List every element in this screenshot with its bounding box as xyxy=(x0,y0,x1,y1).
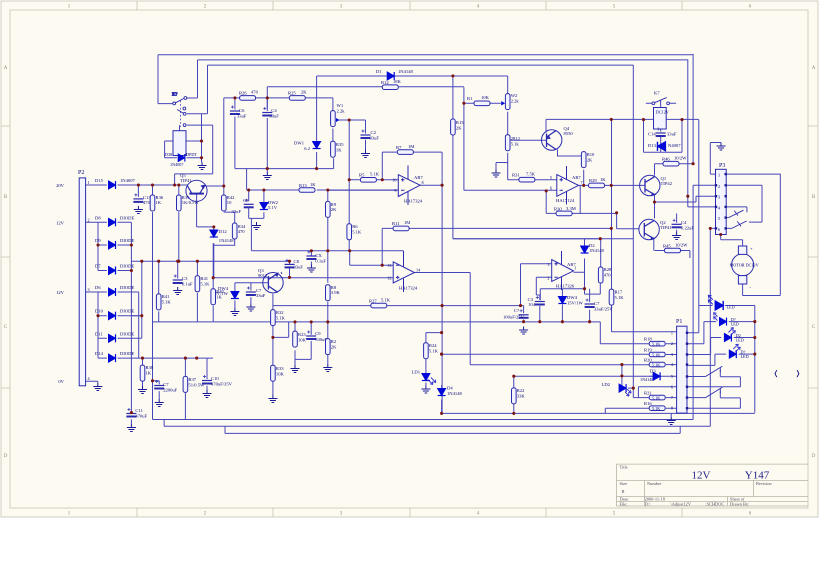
ground R23 xyxy=(291,365,300,373)
ground P3 top xyxy=(717,143,726,151)
wire D9 branch xyxy=(98,222,131,245)
svg-text:Drawn By:: Drawn By: xyxy=(730,501,749,506)
wire R32 bottom link xyxy=(273,322,289,395)
ground C5 xyxy=(252,222,261,230)
svg-text:HA17324: HA17324 xyxy=(404,199,423,204)
svg-text:1K: 1K xyxy=(156,200,162,205)
svg-text:LED: LED xyxy=(731,321,739,326)
wire fb row 288.8 xyxy=(540,289,589,302)
svg-text:Revision: Revision xyxy=(756,481,772,486)
svg-text:HA17324: HA17324 xyxy=(399,286,418,291)
svg-text:LD2: LD2 xyxy=(602,382,611,387)
svg-text:33uF: 33uF xyxy=(370,136,380,141)
svg-text:5: 5 xyxy=(550,175,552,180)
wire D14 row xyxy=(98,358,213,379)
svg-text:R38: R38 xyxy=(146,365,154,370)
svg-text:5.1K: 5.1K xyxy=(200,282,210,287)
capacitor C12 100uF xyxy=(519,309,529,318)
wire Q4 emitter up xyxy=(546,119,699,132)
svg-text:DPDT: DPDT xyxy=(186,152,197,157)
relay coil K7b DC12V xyxy=(654,108,667,130)
svg-text:R11: R11 xyxy=(392,221,400,226)
svg-text:C7: C7 xyxy=(163,382,169,387)
svg-text:W2: W2 xyxy=(511,93,518,98)
svg-text:P2: P2 xyxy=(78,170,84,176)
wire R24 branch xyxy=(426,333,442,386)
ground C13 xyxy=(134,206,143,214)
svg-text:C10: C10 xyxy=(211,376,219,381)
svg-text:❭: ❭ xyxy=(795,370,801,378)
wire x699 drop xyxy=(698,120,700,306)
svg-text:LED: LED xyxy=(741,354,749,359)
svg-text:DIODE: DIODE xyxy=(120,264,134,269)
diode D8 xyxy=(109,218,116,226)
svg-text:2K: 2K xyxy=(587,158,593,163)
transistor Q1 TIP42 xyxy=(640,175,660,195)
wire R34 bottom xyxy=(214,239,235,278)
svg-text:\Adjust12V: \Adjust12V xyxy=(671,501,692,506)
svg-text:D1: D1 xyxy=(376,69,382,74)
wire AR2 fb xyxy=(546,185,580,213)
wire box bottom rail xyxy=(235,158,334,168)
svg-text:33uF/25V: 33uF/25V xyxy=(594,307,613,312)
capacitor C3b 104 xyxy=(535,296,545,305)
resistor R36b 1K xyxy=(150,195,155,211)
wire AR1 out col xyxy=(420,152,442,413)
switch K7a xyxy=(172,92,187,128)
transistor Q4 8550 xyxy=(542,130,562,150)
svg-text:470uF: 470uF xyxy=(135,414,147,419)
svg-text:DW4: DW4 xyxy=(567,295,578,300)
ground C12 xyxy=(519,327,528,335)
wire Q3 base rail xyxy=(235,283,269,308)
wire P3 bottom to motor xyxy=(721,235,743,247)
wire bottom rail 433 xyxy=(225,426,680,433)
capacitor C7b xyxy=(585,299,595,308)
transistor Q2 TIP41 xyxy=(639,219,659,239)
svg-text:5.1K: 5.1K xyxy=(615,295,625,300)
svg-text:13: 13 xyxy=(387,263,391,268)
svg-text:2.2k: 2.2k xyxy=(337,109,346,114)
svg-text:D9: D9 xyxy=(95,238,101,243)
wire LED3 row xyxy=(687,338,755,355)
wire pin12 rail xyxy=(213,277,393,279)
svg-text:2K: 2K xyxy=(301,90,307,95)
wire Q3 emitter rail xyxy=(281,261,290,277)
svg-text:2K: 2K xyxy=(331,345,337,350)
wire P3 pin4 row xyxy=(726,207,747,212)
svg-text:2: 2 xyxy=(671,341,673,346)
svg-text:5.1K: 5.1K xyxy=(276,316,286,321)
svg-text:1: 1 xyxy=(671,330,673,335)
svg-text:0.22uF: 0.22uF xyxy=(681,226,694,231)
resistor R41a xyxy=(156,294,161,310)
svg-text:1N4148: 1N4148 xyxy=(589,248,605,253)
svg-text:33uF: 33uF xyxy=(256,293,266,298)
capacitor C7c 2200uF xyxy=(154,380,164,389)
diode D14 xyxy=(109,354,116,362)
wire Q5 base drop xyxy=(197,194,214,231)
LED D17 xyxy=(714,313,727,326)
wire R23 stub xyxy=(295,322,311,365)
svg-text:R22: R22 xyxy=(517,388,525,393)
svg-text:Number: Number xyxy=(647,481,662,486)
svg-text:CX: CX xyxy=(315,253,322,258)
svg-text:18K: 18K xyxy=(393,79,402,84)
svg-text:A: A xyxy=(812,66,816,71)
switch P3 sw2 xyxy=(732,221,747,228)
svg-text:1: 1 xyxy=(718,173,720,178)
resistor R21 xyxy=(649,395,665,400)
wire R15 col xyxy=(453,76,601,239)
resistor R1 10K xyxy=(474,101,490,106)
svg-text:33uF: 33uF xyxy=(667,132,677,137)
wire C4 branch xyxy=(266,98,268,169)
motor M DC12V xyxy=(732,246,754,284)
diode D2 xyxy=(581,246,589,253)
wire P3 pin5 row xyxy=(726,217,728,219)
wire top rail 3 xyxy=(208,65,634,239)
wire LED4 row xyxy=(687,354,755,365)
svg-text:3.9K: 3.9K xyxy=(331,290,341,295)
svg-text:R26: R26 xyxy=(239,91,247,96)
resistor R18 xyxy=(649,341,665,346)
svg-text:20V: 20V xyxy=(56,183,65,188)
svg-text:C2: C2 xyxy=(371,130,377,135)
wire K7 pole1 xyxy=(158,98,198,104)
ground R33 xyxy=(268,395,277,403)
connector P1 xyxy=(677,326,687,413)
wire R28 top xyxy=(600,239,602,267)
relay K coil xyxy=(173,131,186,156)
wire R1 row xyxy=(464,102,501,104)
wire P1 gnd stub xyxy=(670,413,672,417)
svg-text:LED: LED xyxy=(727,305,735,310)
wire rail 239 xyxy=(453,238,633,240)
svg-text:R10: R10 xyxy=(587,152,595,157)
svg-text:5.1K: 5.1K xyxy=(381,298,391,303)
wire AR3 in12 xyxy=(392,276,394,278)
svg-text:C14: C14 xyxy=(648,132,656,137)
svg-text:12V: 12V xyxy=(56,220,65,225)
svg-text:3: 3 xyxy=(671,352,673,357)
capacitor C14 xyxy=(656,128,666,137)
wire cluster bottoms xyxy=(524,305,590,322)
resistor R19 xyxy=(649,352,665,357)
svg-text:A: A xyxy=(4,66,8,71)
wire C4b stub xyxy=(676,214,678,233)
resistor R20 xyxy=(649,362,665,367)
svg-text:R7: R7 xyxy=(396,145,402,150)
svg-text:12: 12 xyxy=(387,275,391,280)
svg-text:R6: R6 xyxy=(352,224,358,229)
title block xyxy=(616,464,808,506)
wire AR3 in13 xyxy=(350,251,394,265)
svg-text:2812: 2812 xyxy=(511,136,521,141)
svg-text:D: D xyxy=(812,454,816,459)
wire R37 bottom xyxy=(184,393,186,420)
wire R17 col xyxy=(611,305,613,332)
switch P1 sw2 xyxy=(706,387,723,397)
svg-text:D13: D13 xyxy=(648,143,657,148)
svg-text:R46: R46 xyxy=(662,157,670,162)
svg-text:10K: 10K xyxy=(481,95,490,100)
wire P2 pin3 rail xyxy=(85,292,139,358)
wire switch K7b xyxy=(646,102,676,104)
resistor R22 33K xyxy=(512,388,517,404)
resistor R25 2K xyxy=(289,96,305,101)
svg-text:1N4007: 1N4007 xyxy=(170,162,184,167)
wire P3 pin1 row xyxy=(710,143,780,175)
svg-text:1N4148: 1N4148 xyxy=(447,391,463,396)
wire P1 sw2 xyxy=(687,391,740,408)
ground P2 pin4 xyxy=(93,383,102,391)
svg-text:R32: R32 xyxy=(276,310,284,315)
wire C3a stub xyxy=(177,261,179,278)
LED D19 xyxy=(729,344,740,358)
svg-text:TIP41: TIP41 xyxy=(180,178,192,183)
resistor R7 1M xyxy=(397,150,413,155)
svg-text:D: D xyxy=(4,454,8,459)
wire C6 branch xyxy=(234,98,236,169)
svg-text:R23: R23 xyxy=(298,332,306,337)
svg-text:6: 6 xyxy=(671,384,673,389)
wire AR3 out xyxy=(414,273,649,365)
capacitor C3a 0.1uF xyxy=(173,275,183,284)
resistor R9 xyxy=(326,201,331,217)
wire rail 413 xyxy=(442,400,755,414)
svg-text:C6: C6 xyxy=(239,108,245,113)
svg-text:3.3M: 3.3M xyxy=(566,206,576,211)
capacitor C10 xyxy=(202,375,212,384)
svg-text:1N4148: 1N4148 xyxy=(219,238,235,243)
capacitor C6 xyxy=(230,106,240,115)
switch K7b xyxy=(652,98,669,106)
svg-text:1K: 1K xyxy=(216,295,222,300)
svg-text:R31: R31 xyxy=(512,173,520,178)
svg-text:0.1uF: 0.1uF xyxy=(315,259,326,264)
wire bottom rail 419 xyxy=(153,419,694,421)
svg-text:8: 8 xyxy=(422,180,424,185)
svg-text:D15: D15 xyxy=(95,178,104,183)
svg-text:D38: D38 xyxy=(165,152,172,157)
svg-text:5.1K: 5.1K xyxy=(652,363,660,368)
wire supply rail mid xyxy=(131,261,289,316)
svg-text:3: 3 xyxy=(547,262,549,267)
capacitor CX xyxy=(306,251,316,260)
svg-text:8: 8 xyxy=(671,406,673,411)
op-amp AR2 xyxy=(557,166,579,205)
svg-text:R28: R28 xyxy=(604,267,612,272)
svg-text:D:\: D:\ xyxy=(645,501,651,506)
resistor R40 xyxy=(211,289,216,305)
wire AR4 out xyxy=(574,239,601,294)
svg-text:R41: R41 xyxy=(200,276,208,281)
svg-text:C4: C4 xyxy=(681,220,687,225)
wire relay drop xyxy=(179,125,181,131)
svg-text:5.1K: 5.1K xyxy=(352,230,362,235)
svg-text:2: 2 xyxy=(718,184,720,189)
resistor R16 xyxy=(649,406,665,411)
ground DW4a xyxy=(230,308,239,316)
wire LED2 row xyxy=(687,322,755,344)
wire relay right to ground xyxy=(165,141,202,158)
ground C2 xyxy=(361,150,370,158)
svg-text:DIODE: DIODE xyxy=(120,285,134,290)
wire D1 row xyxy=(317,76,508,141)
svg-text:5.1K: 5.1K xyxy=(370,172,380,177)
svg-text:R35: R35 xyxy=(336,142,344,147)
diode D7 xyxy=(109,267,116,275)
wire R2 stub xyxy=(327,322,329,364)
svg-text:Size: Size xyxy=(620,481,628,486)
diode D10 xyxy=(109,312,116,320)
svg-text:2K: 2K xyxy=(331,207,337,212)
svg-text:R5: R5 xyxy=(359,173,365,178)
diode D1 xyxy=(387,72,394,80)
svg-text:10/2W: 10/2W xyxy=(674,156,687,161)
wire D4 col xyxy=(442,354,650,391)
svg-text:1K: 1K xyxy=(600,177,606,182)
svg-text:D10: D10 xyxy=(95,309,104,314)
svg-text:5.1K: 5.1K xyxy=(652,342,660,347)
svg-text:2: 2 xyxy=(547,276,549,281)
svg-text:470uF/35V: 470uF/35V xyxy=(211,382,233,387)
svg-text:D7: D7 xyxy=(95,264,101,269)
svg-text:1K: 1K xyxy=(146,371,152,376)
resistor R26 470 xyxy=(240,96,256,101)
resistor R8 3.9K xyxy=(326,285,331,301)
svg-text:DIODE: DIODE xyxy=(120,331,134,336)
svg-text:R33: R33 xyxy=(276,366,284,371)
wire R39 stub xyxy=(178,185,180,261)
wire ground rail 321.9 xyxy=(153,322,601,344)
ground P1 xyxy=(667,417,676,425)
wire coil2 leads xyxy=(660,106,662,153)
svg-text:8550: 8550 xyxy=(564,131,574,136)
capacitor C7a xyxy=(246,287,256,296)
svg-text:TIP42: TIP42 xyxy=(661,181,673,186)
svg-text:5.1K: 5.1K xyxy=(652,396,660,401)
resistor R13 xyxy=(299,188,315,193)
svg-text:R2: R2 xyxy=(331,339,337,344)
svg-text:33uF: 33uF xyxy=(269,114,279,119)
svg-text:R24: R24 xyxy=(429,343,437,348)
ground C7a xyxy=(246,304,255,312)
svg-text:5.1K: 5.1K xyxy=(652,352,660,357)
wire W1 wiper row xyxy=(336,120,365,150)
svg-text:File:: File: xyxy=(620,501,628,506)
svg-text:33K: 33K xyxy=(517,394,526,399)
resistor R29 1K xyxy=(589,183,605,188)
svg-text:+: + xyxy=(750,246,753,251)
wire R11 row xyxy=(382,119,639,289)
ground C7c xyxy=(155,399,164,407)
wire C5 cluster xyxy=(247,169,399,251)
svg-text:Y147: Y147 xyxy=(745,470,770,482)
svg-text:10: 10 xyxy=(227,200,232,205)
svg-text:DW1: DW1 xyxy=(294,141,305,146)
wire C2200 top xyxy=(153,381,160,399)
svg-text:0.1uF: 0.1uF xyxy=(182,282,193,287)
capacitor C11 xyxy=(126,408,136,417)
ground box rail xyxy=(263,172,272,180)
resistor R37 xyxy=(183,376,188,392)
svg-text:7: 7 xyxy=(581,180,583,185)
svg-text:9012: 9012 xyxy=(258,273,268,278)
svg-text:1K: 1K xyxy=(310,182,316,187)
wire C9 stub xyxy=(310,322,312,335)
svg-text:5.1K: 5.1K xyxy=(652,406,660,411)
zener DW1 xyxy=(313,142,321,149)
svg-text:5.1V: 5.1V xyxy=(268,205,278,210)
resistor R24 xyxy=(424,343,429,359)
wire P2 pin2 rail xyxy=(85,222,132,412)
wire R36b stub xyxy=(152,185,154,420)
wire W2-DR12 xyxy=(507,112,509,135)
wire DR12 bottom xyxy=(496,153,557,180)
wire R5 junction col xyxy=(349,120,398,251)
capacitor C4b xyxy=(672,219,682,228)
svg-text:6: 6 xyxy=(718,227,720,232)
wire P1 sw1 xyxy=(687,370,740,387)
ground C3a xyxy=(173,287,182,295)
ground CX xyxy=(307,265,316,273)
svg-text:33uF: 33uF xyxy=(232,209,242,214)
LED D18 xyxy=(724,328,735,342)
wire motor loop xyxy=(743,174,781,296)
wire D11 branch xyxy=(98,316,142,339)
svg-text:DIODE: DIODE xyxy=(120,238,134,243)
wire C13 stub xyxy=(137,185,139,197)
svg-text:R27: R27 xyxy=(369,299,377,304)
svg-text:12V: 12V xyxy=(56,290,65,295)
ground DR12 xyxy=(492,170,501,178)
wire C11 bottom xyxy=(130,419,132,424)
svg-text:R1: R1 xyxy=(467,96,473,101)
resistor R33 xyxy=(271,365,276,381)
svg-text:R45: R45 xyxy=(663,244,671,249)
svg-text:K?: K? xyxy=(172,92,177,97)
capacitor C13 xyxy=(133,193,143,202)
svg-text:N4007: N4007 xyxy=(668,143,681,148)
svg-text:7: 7 xyxy=(671,395,673,400)
svg-text:R37: R37 xyxy=(188,377,196,382)
wire P1 left rows xyxy=(600,239,676,413)
svg-text:6: 6 xyxy=(550,185,552,190)
diode D9 xyxy=(109,241,116,249)
transistor Q3 9012 xyxy=(263,273,283,293)
svg-text:2: 2 xyxy=(88,217,90,222)
LED D16 xyxy=(708,295,723,310)
zener DW4a xyxy=(231,292,239,299)
wire P3 pin3 row xyxy=(688,206,716,208)
svg-text:❬: ❬ xyxy=(773,370,779,378)
wire R41a stub xyxy=(158,261,160,322)
svg-text:2K: 2K xyxy=(456,126,462,131)
wire AR2 out xyxy=(579,184,645,186)
switch P3 sw1 xyxy=(729,210,744,217)
svg-text:C7: C7 xyxy=(594,301,600,306)
wire Q3 collector xyxy=(272,294,274,310)
svg-text:5: 5 xyxy=(671,374,673,379)
wire R40 stub xyxy=(212,243,214,322)
svg-text:TIP41: TIP41 xyxy=(660,225,672,230)
wire top rail 2 xyxy=(198,59,688,207)
ground C4b xyxy=(672,232,681,240)
resistor R38 xyxy=(140,365,145,381)
wire P3 pin6 row xyxy=(710,228,731,426)
